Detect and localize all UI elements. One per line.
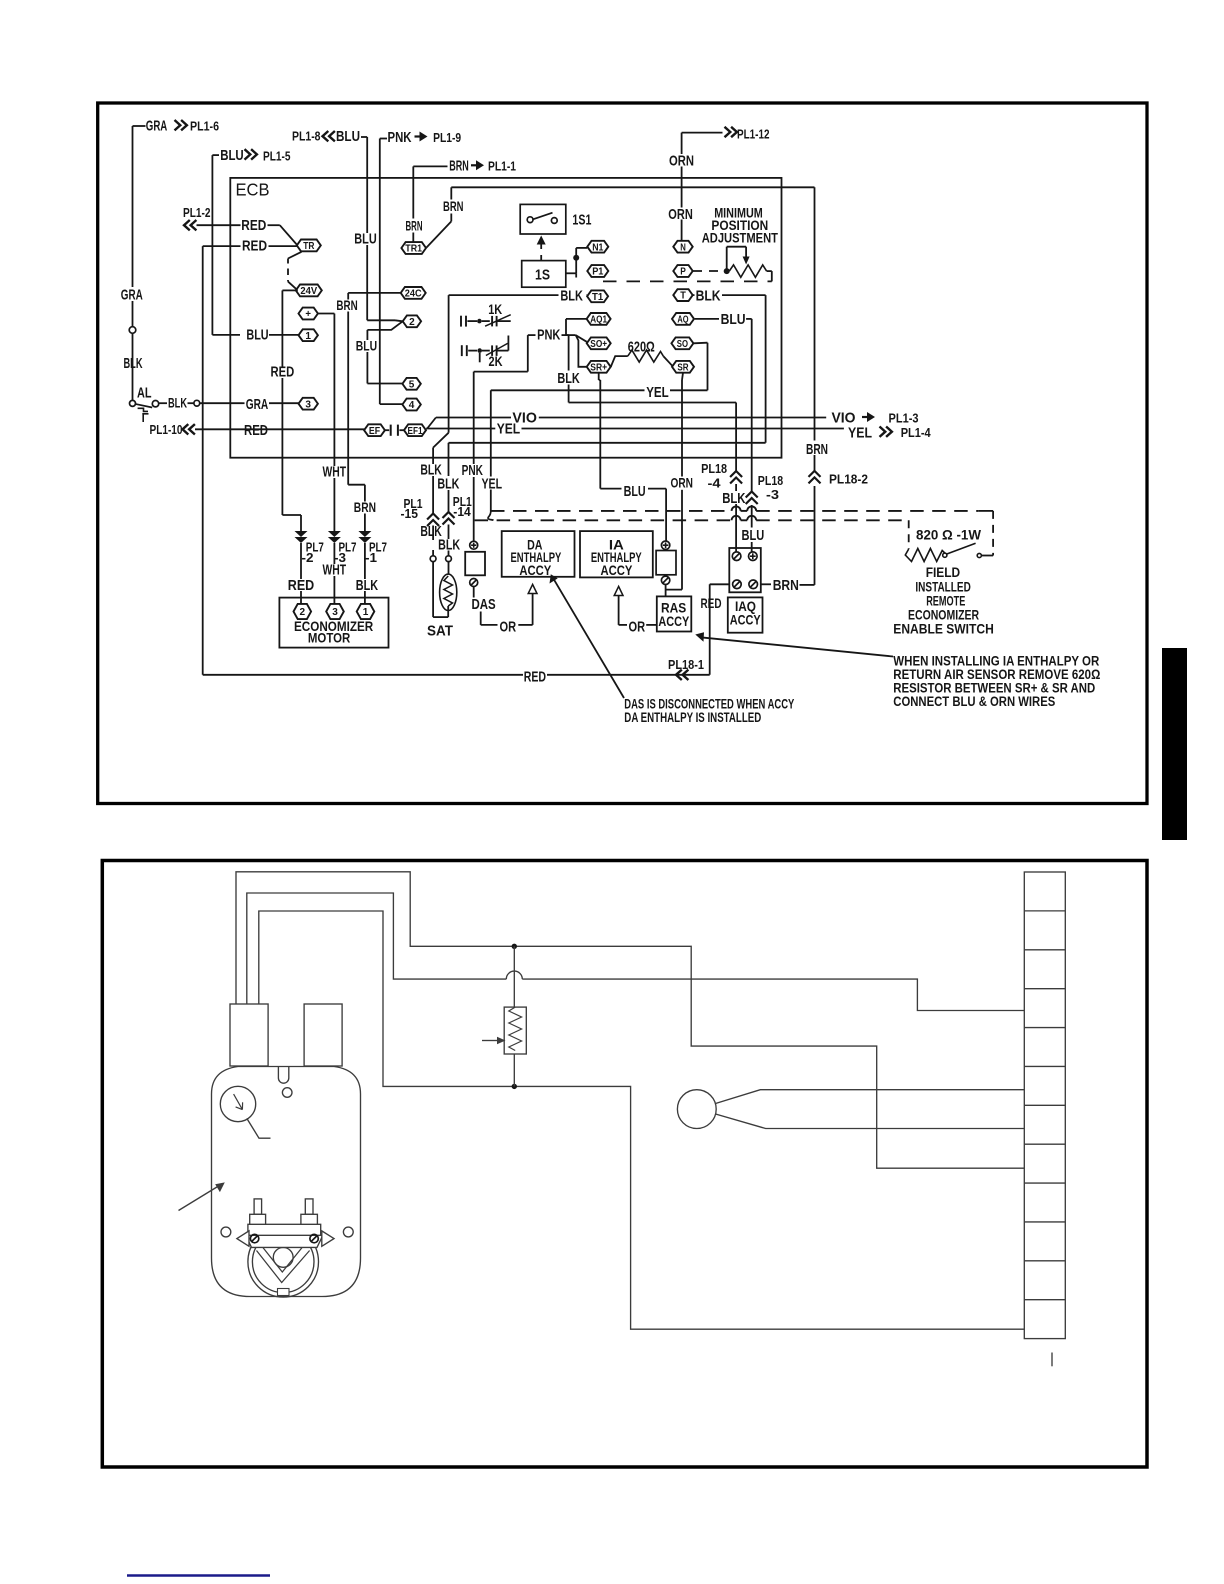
svg-text:GRA: GRA xyxy=(146,117,168,134)
panel 2 border frame xyxy=(102,861,1147,1468)
svg-text:BLK: BLK xyxy=(557,370,580,387)
wire BLK from T1 xyxy=(449,294,559,296)
connector PL18-2 chevrons xyxy=(809,471,821,477)
block ECONOMIZER MOTOR xyxy=(279,598,388,648)
svg-text:3: 3 xyxy=(332,606,338,618)
wire bottom RED long horizontal xyxy=(203,674,523,676)
actuator plug right xyxy=(304,1004,342,1066)
svg-text:-4: -4 xyxy=(708,475,722,490)
wire SR bottom ORN drop xyxy=(682,373,683,380)
svg-text:ACCY: ACCY xyxy=(730,611,761,627)
svg-text:1: 1 xyxy=(363,606,369,618)
actuator body outline xyxy=(212,1067,361,1297)
svg-text:RED: RED xyxy=(288,577,315,594)
svg-text:SR+: SR+ xyxy=(590,361,607,373)
block IA ENTHALPY ACCY xyxy=(580,531,653,577)
screw slash IA-side xyxy=(661,576,669,584)
svg-text:620Ω: 620Ω xyxy=(628,338,655,355)
wire PNK to SO+/SR+ xyxy=(528,334,536,336)
wire from circle to GRA row xyxy=(200,402,243,404)
svg-text:ORN: ORN xyxy=(669,153,694,170)
wire BLU into screw 8 xyxy=(751,505,753,528)
wire BLK to SAT right xyxy=(448,525,450,540)
pin hex 1 xyxy=(299,329,318,341)
svg-text:SO: SO xyxy=(677,338,688,350)
svg-text:4: 4 xyxy=(409,399,415,411)
pin hex P xyxy=(673,265,692,277)
svg-text:PL18: PL18 xyxy=(758,473,783,488)
wire GRA rail vertical xyxy=(132,126,134,287)
svg-text:-1: -1 xyxy=(365,550,377,565)
pin hex TR xyxy=(297,240,321,252)
svg-text:EF: EF xyxy=(369,425,381,437)
svg-text:3: 3 xyxy=(305,398,311,410)
pump crossbar upper xyxy=(248,1224,321,1235)
wire sensor flag upper xyxy=(716,1090,1025,1104)
svg-text:PNK: PNK xyxy=(537,327,560,344)
wire BLU#1 into pin 2 xyxy=(367,319,395,321)
actuator gauge dial xyxy=(220,1086,255,1121)
svg-text:PL1-5: PL1-5 xyxy=(263,149,291,164)
svg-text:BRN: BRN xyxy=(406,218,423,234)
svg-text:TR1: TR1 xyxy=(405,243,422,255)
dashed link TR to 24V xyxy=(288,252,302,259)
actuator top notch xyxy=(278,1067,288,1084)
screw 2 xyxy=(749,580,758,589)
wire BLK switch row xyxy=(159,402,167,404)
pump V belt xyxy=(257,1247,310,1283)
gauge leader line xyxy=(247,1118,271,1138)
dashed net from P1 to pot xyxy=(603,280,772,282)
pin hex 3 xyxy=(299,398,318,410)
terminal block 7-8-1-2 xyxy=(729,548,761,592)
svg-text:-14: -14 xyxy=(453,504,471,519)
svg-text:YEL: YEL xyxy=(497,421,521,438)
svg-text:2: 2 xyxy=(409,316,415,328)
svg-text:AL: AL xyxy=(137,385,152,402)
wire BRN vertical to TR1 xyxy=(412,166,414,218)
svg-text:24C: 24C xyxy=(405,288,422,300)
wire T1 BLK drop and jog xyxy=(448,295,450,433)
wire BRN right drop vertical xyxy=(814,187,816,440)
wire RED row1 xyxy=(197,224,241,226)
wire BLU PL1-8 vertical xyxy=(361,136,367,138)
pump screw left xyxy=(250,1234,258,1242)
dashed field wiring row upper xyxy=(491,510,732,512)
svg-text:PL1-1: PL1-1 xyxy=(488,159,516,174)
screw plus DAS xyxy=(470,541,478,549)
pin hex motor 3 xyxy=(326,604,344,619)
wire GRA row to pin3 xyxy=(243,402,245,404)
potentiometer minimum position adjustment xyxy=(727,246,746,248)
node open-circle right of BLK xyxy=(194,400,200,406)
wire BRN PL1-1 horizontal xyxy=(413,165,447,167)
connector PL1-1 arrow xyxy=(471,164,477,166)
svg-text:WHT: WHT xyxy=(323,562,347,579)
svg-text:-2: -2 xyxy=(302,550,314,565)
wire resistor vertical xyxy=(513,946,515,1007)
svg-text:BLU: BLU xyxy=(624,483,646,500)
thermistor SAT xyxy=(440,574,457,610)
connector PL7-3 chevrons xyxy=(328,531,341,537)
pin hex T xyxy=(673,289,692,301)
svg-text:BLK: BLK xyxy=(124,355,143,372)
switch blade field enable xyxy=(947,543,976,554)
wire screw to RAS box xyxy=(665,585,667,596)
pin hex motor 1 xyxy=(357,604,375,619)
connector PL18-1 chevrons xyxy=(676,670,682,680)
pin hex 24C xyxy=(401,287,426,299)
svg-text:BLU: BLU xyxy=(220,147,244,164)
svg-text:YEL: YEL xyxy=(482,475,503,492)
pump wing left xyxy=(237,1231,249,1246)
svg-text:PNK: PNK xyxy=(462,462,483,479)
wire YEL joins dashed rows xyxy=(488,511,494,520)
connector PL1-9 arrow xyxy=(415,135,421,137)
svg-text:BLK: BLK xyxy=(722,490,745,507)
wire BLK PL1-15 drop xyxy=(432,448,434,464)
svg-text:BRN: BRN xyxy=(773,577,799,594)
screw slash DAS xyxy=(470,579,478,587)
arrow 1S1 to 1S xyxy=(537,236,546,245)
wire 24V lead RED vertical xyxy=(282,289,297,291)
svg-text:ECB: ECB xyxy=(236,180,270,200)
actuator mounting hole right xyxy=(343,1227,353,1237)
svg-text:PL1-9: PL1-9 xyxy=(433,130,461,145)
pin hex EF xyxy=(364,424,385,436)
svg-text:GRA: GRA xyxy=(246,396,269,413)
pump screw right xyxy=(310,1234,318,1242)
pump crossbar lower xyxy=(246,1235,323,1247)
connector PL7-2 chevrons xyxy=(295,531,308,537)
right margin black bar xyxy=(1162,648,1187,840)
pump hub xyxy=(273,1248,293,1268)
svg-text:TR: TR xyxy=(303,240,315,252)
wire sensor flag lower xyxy=(716,1114,1025,1129)
connector PL18-4 chevrons xyxy=(730,471,742,477)
pin hex N xyxy=(673,241,692,253)
wire BLK from T xyxy=(693,294,695,296)
pump wing right xyxy=(322,1231,334,1246)
svg-text:PL18-1: PL18-1 xyxy=(668,657,704,672)
pin hex AQ1 xyxy=(587,313,611,325)
connector PL1-14 chevrons xyxy=(443,512,455,518)
wire BRN from screw 2 xyxy=(761,583,771,585)
svg-text:RED: RED xyxy=(524,669,546,686)
wire RED jog to PL7-2 xyxy=(282,514,301,516)
wire BRN stub to TR1 hex xyxy=(450,187,452,199)
sensor bulb circle xyxy=(677,1090,716,1129)
wire BLK drop from PNK junction xyxy=(566,334,569,336)
svg-text:BLU: BLU xyxy=(721,311,746,328)
wire RED to motor pin 2 xyxy=(300,543,302,579)
svg-text:BLK: BLK xyxy=(356,577,378,594)
svg-text:ENABLE SWITCH: ENABLE SWITCH xyxy=(893,621,994,637)
svg-text:T1: T1 xyxy=(592,291,603,303)
svg-text:T: T xyxy=(680,290,686,302)
svg-text:RED: RED xyxy=(242,237,267,254)
node open-circle on GRA/BLK rail xyxy=(129,327,136,334)
svg-text:PL1-10: PL1-10 xyxy=(150,422,183,437)
wire DAS to OR xyxy=(473,587,475,598)
connector PL1-12 chevrons xyxy=(725,127,731,137)
pin hex SO+ xyxy=(587,337,611,349)
svg-text:MOTOR: MOTOR xyxy=(308,630,350,646)
svg-text:ACCY: ACCY xyxy=(601,562,633,578)
svg-text:BRN: BRN xyxy=(443,198,464,214)
junction dot on 1S wire xyxy=(573,255,579,261)
wire actuator lead 2 middle xyxy=(247,893,507,1004)
svg-text:DA ENTHALPY IS INSTALLED: DA ENTHALPY IS INSTALLED xyxy=(624,710,761,725)
wire BLU row to pin1 xyxy=(212,334,240,336)
connector PL1-2 chevrons xyxy=(184,220,190,230)
wire PNK into pin 4 xyxy=(380,403,403,405)
wire actuator lead 1 outer xyxy=(236,872,1024,1168)
junction dot resistor top xyxy=(512,944,517,949)
wire GRA/BLK rail lower xyxy=(132,333,134,400)
svg-text:OR: OR xyxy=(500,618,517,635)
wire PNK drop from label xyxy=(527,335,529,372)
wire BLK PL1-14 drop xyxy=(448,443,450,458)
wire RED row2 xyxy=(203,245,241,247)
wire SO loop down to YEL row xyxy=(693,342,707,345)
wire YEL row from EF1 xyxy=(426,428,495,430)
screw 7 xyxy=(732,552,741,561)
wire RED row to EF xyxy=(243,428,365,430)
svg-text:BLU: BLU xyxy=(354,231,376,248)
actuator mounting hole left xyxy=(221,1227,231,1237)
svg-text:P1: P1 xyxy=(592,266,603,278)
svg-text:GRA: GRA xyxy=(121,287,143,304)
svg-text:BLU: BLU xyxy=(336,128,360,145)
wire BLK horizontal to PL18-4 drop xyxy=(569,402,737,404)
wire 1S to N1/P1 junction xyxy=(566,272,576,274)
switch AL alarm contact xyxy=(130,400,136,406)
wire BLK into screw 7 xyxy=(735,484,737,491)
wire jumper pin2 to pin5 BLU xyxy=(367,321,402,330)
pin hex TR1 xyxy=(401,242,426,254)
relay 1S box xyxy=(522,261,566,288)
svg-text:BLK: BLK xyxy=(560,288,583,305)
connector PL7-1 chevrons xyxy=(358,531,371,537)
wire BLU horizontal to plus terminal xyxy=(600,488,621,490)
wire 24C lead BRN vertical xyxy=(348,292,401,294)
arrow pointing at actuator xyxy=(179,1185,222,1211)
connector PL18-3 chevrons xyxy=(746,492,758,498)
svg-text:BLU: BLU xyxy=(742,527,765,544)
svg-text:PL1-6: PL1-6 xyxy=(190,119,219,134)
dashed bracket lower to resistor xyxy=(908,520,910,549)
connector PL1-5 chevrons xyxy=(245,149,251,159)
wire RED from screw 1 xyxy=(710,583,730,585)
node open-circle SAT right xyxy=(446,556,452,562)
terminal strip xyxy=(1024,872,1065,1339)
wire ORN vertical xyxy=(681,133,683,154)
svg-text:PL18: PL18 xyxy=(701,461,727,476)
pin hex 4 xyxy=(402,399,420,411)
svg-text:1S1: 1S1 xyxy=(572,212,591,229)
svg-text:ORN: ORN xyxy=(671,475,694,491)
pin hex plus xyxy=(299,308,318,320)
svg-text:BLK: BLK xyxy=(437,475,459,492)
resistor 620 ohm between SR+ and SR xyxy=(611,356,628,367)
svg-text:2: 2 xyxy=(300,606,306,618)
screw plus IA-side xyxy=(661,541,669,549)
svg-text:SAT: SAT xyxy=(427,623,453,640)
connector PL1-8 chevrons xyxy=(323,131,329,141)
block DA ENTHALPY ACCY xyxy=(502,531,575,577)
svg-text:ADJUSTMENT: ADJUSTMENT xyxy=(702,229,779,245)
wire BLK to SAT left xyxy=(432,526,434,541)
svg-text:1S: 1S xyxy=(535,267,550,284)
terminal body DAS xyxy=(465,552,485,576)
svg-text:820 Ω -1W: 820 Ω -1W xyxy=(916,527,982,543)
wire AQ lead BLU xyxy=(695,318,719,320)
wire left rail RED vertical to bottom run xyxy=(202,246,204,675)
svg-text:BRN: BRN xyxy=(354,499,376,515)
wire SR+ bottom drop xyxy=(598,373,600,380)
capacitor between EF and EF1 xyxy=(385,429,389,431)
svg-text:ORN: ORN xyxy=(668,206,693,223)
svg-text:+: + xyxy=(305,308,311,320)
wire T BLK drop to long row xyxy=(765,295,767,443)
pin hex EF1 xyxy=(404,424,426,436)
screw 1 xyxy=(733,580,742,589)
pump wheel outer xyxy=(248,1227,319,1298)
pin hex 2 xyxy=(403,315,421,327)
svg-text:PL1-12: PL1-12 xyxy=(737,127,770,142)
wire AQ1 loop to SO xyxy=(566,318,587,320)
pin hex T1 xyxy=(587,290,608,302)
svg-text:BLU: BLU xyxy=(246,326,268,343)
junction dot resistor bottom xyxy=(512,1084,517,1089)
wire jumper into pin 5 xyxy=(367,383,402,385)
svg-text:BLK: BLK xyxy=(438,536,460,553)
svg-text:CONNECT BLU & ORN WIRES: CONNECT BLU & ORN WIRES xyxy=(893,694,1055,709)
wire BLU drop PL18-3 xyxy=(751,319,753,492)
svg-text:PL18-2: PL18-2 xyxy=(829,472,868,487)
svg-text:RED: RED xyxy=(241,217,266,234)
svg-text:-15: -15 xyxy=(401,506,419,521)
switch 1S1 contacts xyxy=(527,217,533,223)
svg-text:YEL: YEL xyxy=(646,384,669,401)
svg-text:WHT: WHT xyxy=(323,464,347,481)
svg-text:-3: -3 xyxy=(766,487,779,502)
svg-text:24V: 24V xyxy=(300,285,317,297)
switch 1S1 box xyxy=(520,204,566,234)
wire BRN jog to PL7-1 xyxy=(348,484,365,486)
trimmer capacitor 1K xyxy=(460,316,462,327)
svg-text:PL1-4: PL1-4 xyxy=(901,425,932,440)
svg-text:DAS: DAS xyxy=(472,596,496,613)
wire PNK vertical xyxy=(380,138,387,140)
svg-text:AQ: AQ xyxy=(677,314,688,326)
trimmer capacitor 2K xyxy=(461,345,463,356)
arrow pointing at resistor xyxy=(482,1040,498,1042)
tick below terminal strip xyxy=(1051,1353,1053,1367)
block IAQ ACCY xyxy=(728,597,763,632)
svg-text:EF1: EF1 xyxy=(408,425,423,437)
resistor 820 ohm field installed xyxy=(905,549,945,562)
svg-text:YEL: YEL xyxy=(848,424,872,441)
svg-text:N: N xyxy=(680,241,686,253)
pin hex 5 xyxy=(402,378,420,390)
pin hex SR+ xyxy=(587,361,611,373)
pin hex N1 xyxy=(587,241,608,253)
pump bolt left xyxy=(254,1199,262,1214)
svg-text:RED: RED xyxy=(271,364,295,381)
svg-text:P: P xyxy=(680,266,686,278)
svg-text:SO+: SO+ xyxy=(590,338,607,350)
wire RED row PL1-10 xyxy=(195,428,243,430)
pump bolt right xyxy=(305,1199,313,1214)
svg-text:2K: 2K xyxy=(489,354,503,369)
dashed bracket right upper xyxy=(978,510,993,512)
wire plus lead WHT vertical xyxy=(318,313,335,315)
pin hex P1 xyxy=(587,265,608,277)
svg-text:ACCY: ACCY xyxy=(658,613,689,629)
connector PL1-6 chevrons xyxy=(175,120,181,130)
ECB board outline xyxy=(230,178,781,458)
wire BLU rail PL1-5 vertical xyxy=(211,155,213,335)
wire WHT to motor pin 3 xyxy=(333,543,335,564)
svg-text:PL1-3: PL1-3 xyxy=(889,411,919,426)
svg-text:PNK: PNK xyxy=(388,129,412,146)
connector PL1-3 arrow xyxy=(862,416,868,418)
wire inner top horizontal to BRN drop xyxy=(451,186,814,188)
node open-circle SAT left xyxy=(430,556,436,562)
pin hex motor 2 xyxy=(294,604,312,619)
svg-text:1: 1 xyxy=(305,330,311,342)
actuator small hole below notch xyxy=(282,1088,292,1098)
svg-text:BLU: BLU xyxy=(356,338,377,354)
svg-text:N1: N1 xyxy=(592,241,603,253)
svg-text:BRN: BRN xyxy=(806,441,828,458)
wire ORN PL1-12 corner xyxy=(682,132,723,134)
svg-text:PL1-8: PL1-8 xyxy=(292,129,321,144)
pin hex AQ xyxy=(672,313,694,325)
svg-text:BRN: BRN xyxy=(449,158,469,175)
leader arrow to DA box xyxy=(554,579,624,698)
svg-text:BRN: BRN xyxy=(336,297,357,313)
wire BLU PL1-5 stub xyxy=(212,154,219,156)
screw 8 xyxy=(749,552,758,561)
svg-text:1K: 1K xyxy=(488,302,502,317)
wire IA OR arrow xyxy=(614,586,623,595)
svg-text:OR: OR xyxy=(629,618,646,635)
footer blue rule xyxy=(127,1574,270,1577)
svg-text:5: 5 xyxy=(409,378,415,390)
dashed net P to pot wiper xyxy=(693,270,724,272)
svg-text:PL1-2: PL1-2 xyxy=(183,205,211,220)
svg-text:BLK: BLK xyxy=(696,288,721,305)
node switch right terminal xyxy=(977,553,981,557)
terminal body IA-side xyxy=(656,551,676,575)
connector PL1-15 chevrons xyxy=(427,514,439,520)
actuator plug left xyxy=(230,1004,268,1066)
pin hex 24V xyxy=(296,285,322,297)
connector PL1-10 chevrons xyxy=(183,424,189,434)
dashed field wiring row lower xyxy=(475,519,732,521)
wire OR to RAS xyxy=(646,624,657,626)
svg-text:SR: SR xyxy=(677,361,689,373)
connector PL1-4 chevrons xyxy=(880,427,886,437)
wire actuator lead 3 inner xyxy=(259,911,1025,1329)
wire YEL exit drop xyxy=(490,390,492,476)
node switch left terminal xyxy=(943,553,947,557)
svg-text:ACCY: ACCY xyxy=(519,562,551,578)
svg-text:RED: RED xyxy=(244,422,268,439)
